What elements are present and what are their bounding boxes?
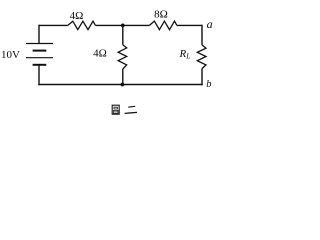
svg-text:10V: 10V (1, 49, 20, 61)
wire left branch upper (38, 25, 40, 44)
wire top-middle horizontal (96, 24, 150, 26)
resistor R2 8ohm horizontal zigzag (149, 21, 177, 30)
svg-text:4Ω: 4Ω (70, 10, 84, 22)
wire middle branch lower (122, 69, 124, 85)
wire bottom horizontal (38, 84, 202, 86)
caption glyph tu (figure) (112, 105, 119, 114)
wire middle branch upper (122, 25, 124, 44)
battery V1 plate short bottom (33, 64, 47, 66)
resistor R1 4ohm horizontal zigzag (68, 21, 96, 29)
wire top-left horizontal (39, 24, 68, 26)
battery V1 plate short upper (33, 50, 47, 52)
caption glyph er (two) (128, 105, 135, 108)
node junction dot top (121, 24, 125, 28)
resistor R3 4ohm vertical zigzag (118, 45, 127, 69)
svg-text:8Ω: 8Ω (154, 9, 168, 21)
battery V1 plate long lower (26, 57, 53, 59)
svg-text:4Ω: 4Ω (93, 48, 107, 60)
resistor RL vertical zigzag (197, 45, 206, 69)
wire right branch upper (201, 25, 203, 45)
battery V1 plate long top (26, 43, 53, 45)
svg-text:a: a (207, 17, 213, 31)
wire left branch lower (38, 65, 40, 85)
wire right branch lower (201, 69, 203, 86)
svg-text:b: b (206, 79, 211, 90)
node junction dot bottom (121, 83, 125, 87)
wire top-right horizontal (177, 24, 202, 26)
